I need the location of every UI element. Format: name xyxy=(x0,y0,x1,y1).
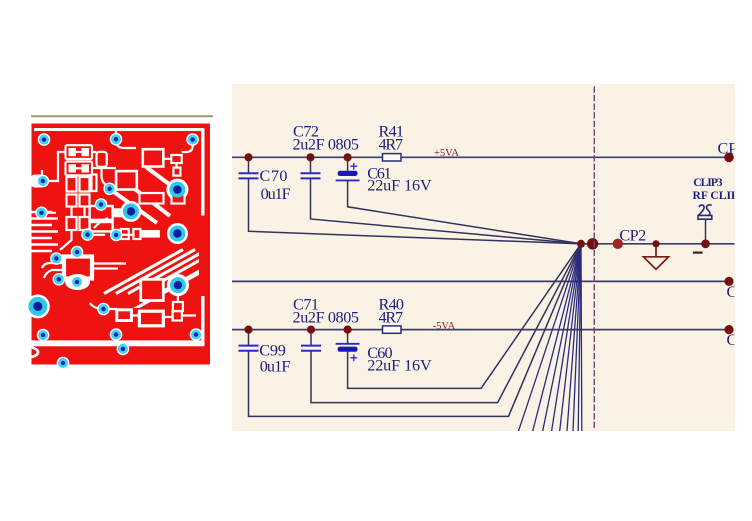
pcb outline trace bottom band xyxy=(32,340,205,346)
wire fan from node xyxy=(519,244,582,431)
svg-text:CP2: CP2 xyxy=(619,226,646,244)
wire +5VA rail xyxy=(232,156,729,158)
minus polarity mark xyxy=(694,252,702,254)
PCB image group xyxy=(26,115,231,369)
svg-text:C: C xyxy=(727,283,738,301)
capacitor C99 xyxy=(240,346,258,351)
pcb mid outline bar xyxy=(90,206,113,220)
pcb top-right link xyxy=(163,159,176,168)
resistor R40 xyxy=(383,326,402,333)
pcb soic footprint xyxy=(64,257,92,279)
pcb left bottom notch pad xyxy=(32,347,39,357)
pcb board red area xyxy=(32,124,211,365)
pcb small pads row bottom of mid xyxy=(121,229,129,239)
svg-text:C: C xyxy=(727,331,738,349)
schematic sheet background xyxy=(232,84,735,431)
pcb vertical pad column c xyxy=(67,217,77,230)
capacitor C70 xyxy=(240,173,258,178)
capacitor C61 (electrolytic) xyxy=(337,163,359,180)
wire -5VA rail xyxy=(232,329,729,331)
pcb trace left pad link xyxy=(44,152,65,181)
svg-text:2u2F 0805: 2u2F 0805 xyxy=(293,136,360,154)
wire mid rail xyxy=(232,280,729,282)
pcb trace bar via link xyxy=(91,234,133,236)
pcb vias small xyxy=(35,133,202,369)
pcb trace top-right elbows xyxy=(116,130,193,153)
pcb lower chain pads xyxy=(117,310,132,321)
pcb vias large xyxy=(26,182,189,319)
pcb vertical pad column b xyxy=(67,195,77,207)
pcb trace via131 link xyxy=(94,211,121,228)
svg-text:4R7: 4R7 xyxy=(379,308,404,326)
pcb outline trace right upper xyxy=(201,128,204,215)
wire C60 leads xyxy=(348,244,581,389)
pcb left edge pad xyxy=(29,175,47,188)
pcb outline trace right lower xyxy=(201,296,204,342)
pcb top-right square pad 1 xyxy=(143,149,164,166)
pcb mid square pad xyxy=(116,171,137,189)
pcb lower chain links xyxy=(90,303,196,317)
wire CLIP3 lead xyxy=(705,220,707,244)
wire C72 leads xyxy=(311,158,582,244)
svg-text:0u1F: 0u1F xyxy=(261,185,291,203)
pcb footprint pads top-left pair 1 xyxy=(66,145,93,159)
capacitor C72 xyxy=(302,173,320,178)
pcb keyhole pad lower xyxy=(167,274,189,296)
pcb trace lower-left runs xyxy=(42,170,85,250)
svg-text:RF CLIP: RF CLIP xyxy=(693,189,739,202)
dashed page-break line xyxy=(593,87,595,428)
resistor R41 xyxy=(383,154,402,161)
schematic group xyxy=(232,87,738,431)
capacitor C60 (electrolytic) xyxy=(337,344,359,361)
wire C61 leads xyxy=(348,158,581,244)
pcb top border line (olive) xyxy=(31,115,213,117)
pcb center tall pads xyxy=(97,152,107,167)
pcb left comb fingers xyxy=(32,212,59,251)
pcb traces soic right xyxy=(93,264,126,269)
wire C71 leads xyxy=(311,244,581,403)
svg-text:22uF 16V: 22uF 16V xyxy=(367,356,432,374)
svg-text:2u2F 0805: 2u2F 0805 xyxy=(293,308,360,326)
pcb vertical pad column a xyxy=(67,177,77,192)
pcb big square pad lower xyxy=(141,279,164,300)
svg-text:CP: CP xyxy=(718,140,738,158)
pcb thick diagonals top xyxy=(107,167,173,223)
pcb outline trace top xyxy=(34,128,203,131)
capacitor C71 xyxy=(302,346,320,351)
pcb keyhole pad xyxy=(173,168,180,176)
wire C70 leads xyxy=(249,158,582,244)
pcb top-right small pad xyxy=(171,155,181,163)
pcb center spine traces xyxy=(92,152,116,186)
svg-text:C70: C70 xyxy=(260,167,288,185)
pcb trace column links xyxy=(72,207,85,218)
svg-text:4R7: 4R7 xyxy=(379,136,404,154)
pcb traces soic left xyxy=(42,263,64,278)
ground symbol xyxy=(644,244,669,269)
node CP2 pad dot xyxy=(613,239,623,249)
svg-text:CLIP3: CLIP3 xyxy=(693,176,722,189)
svg-text:+5VA: +5VA xyxy=(434,148,459,159)
wire CP2 net xyxy=(581,243,735,245)
pcb diagonal bundle xyxy=(104,250,231,312)
test clip CLIP3 symbol xyxy=(698,205,712,219)
wire C99 leads xyxy=(249,244,582,417)
svg-text:0u1F: 0u1F xyxy=(260,358,291,376)
pcb footprint pads top-left pair 2 xyxy=(66,162,93,176)
svg-text:22uF 16V: 22uF 16V xyxy=(367,177,432,195)
node main junction xyxy=(577,240,585,248)
pcb mid horizontal bar xyxy=(114,208,135,217)
svg-text:-5VA: -5VA xyxy=(433,321,456,332)
pcb mid right pads xyxy=(140,193,164,204)
junction dots xyxy=(244,153,733,335)
